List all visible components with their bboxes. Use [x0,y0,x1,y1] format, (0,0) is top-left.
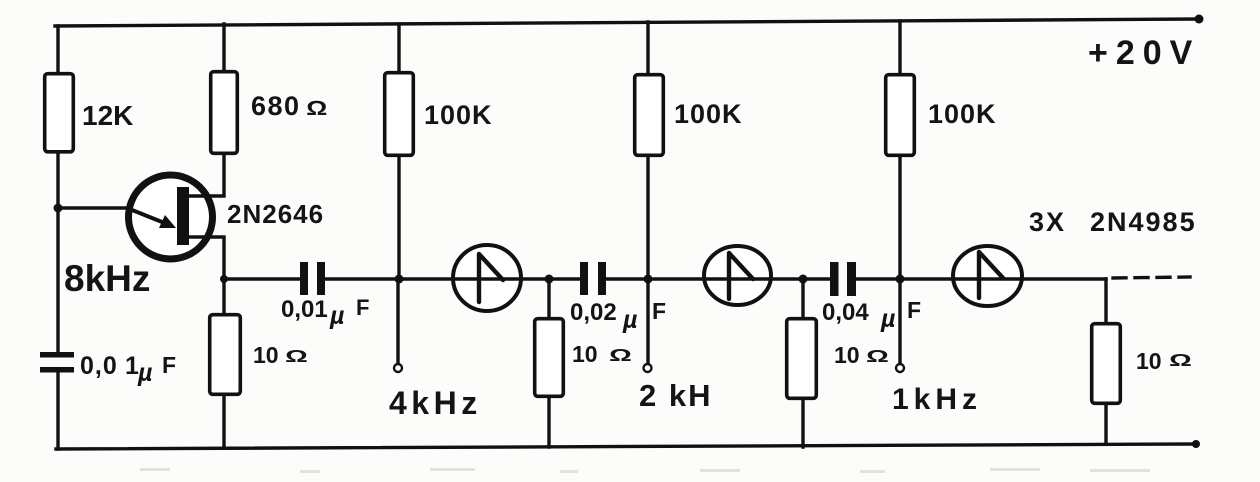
svg-text:F: F [907,297,921,323]
svg-text:10: 10 [572,341,598,367]
svg-text:Ω: Ω [285,347,308,366]
svg-text:+20V: +20V [1088,34,1200,72]
svg-text:0,0: 0,0 [80,352,118,380]
svg-text:10: 10 [1136,348,1162,374]
svg-text:0,04: 0,04 [822,299,869,326]
svg-text:10: 10 [253,342,279,368]
svg-text:0,01: 0,01 [281,296,328,323]
svg-text:680: 680 [251,91,301,121]
svg-text:Ω: Ω [306,97,327,120]
svg-text:µ: µ [329,302,344,330]
svg-text:Ω: Ω [1169,351,1192,370]
svg-text:10: 10 [834,342,860,368]
svg-text:3X: 3X [1029,207,1066,237]
svg-text:F: F [652,298,666,324]
svg-text:100K: 100K [674,99,743,129]
svg-text:µ: µ [622,306,637,334]
svg-text:Ω: Ω [609,346,632,365]
svg-text:F: F [162,352,176,378]
svg-text:0,02: 0,02 [570,299,617,326]
svg-text:2 kH: 2 kH [639,378,712,413]
svg-text:µ: µ [137,359,152,387]
svg-text:1: 1 [125,352,139,380]
svg-text:F: F [356,295,369,320]
svg-text:12K: 12K [82,100,133,131]
svg-text:100K: 100K [424,100,493,130]
svg-text:2N2646: 2N2646 [227,199,324,229]
svg-text:µ: µ [880,305,895,333]
svg-text:2N4985: 2N4985 [1090,207,1197,237]
svg-text:8kHz: 8kHz [64,258,150,299]
svg-text:Ω: Ω [866,347,889,366]
svg-text:100K: 100K [928,99,997,129]
svg-text:4kHz: 4kHz [389,385,482,421]
svg-text:1kHz: 1kHz [892,383,982,416]
